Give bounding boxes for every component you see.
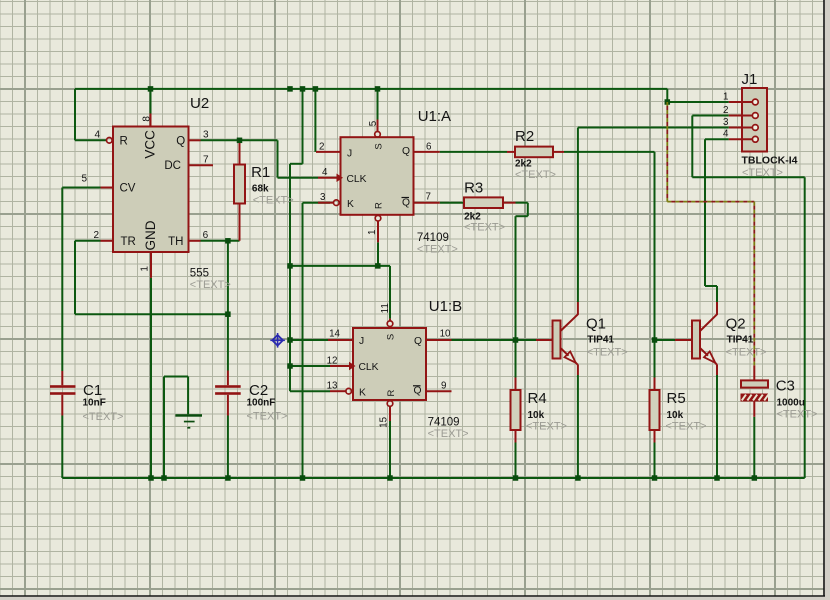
svg-text:Q: Q xyxy=(414,386,422,397)
svg-text:1000u: 1000u xyxy=(777,398,805,409)
svg-text:TBLOCK-I4: TBLOCK-I4 xyxy=(742,154,798,166)
svg-text:TH: TH xyxy=(168,236,183,248)
svg-text:R: R xyxy=(373,202,384,209)
svg-text:9: 9 xyxy=(441,380,446,391)
svg-text:Q2: Q2 xyxy=(726,316,746,333)
svg-text:J: J xyxy=(359,336,364,347)
svg-text:R5: R5 xyxy=(667,390,686,407)
svg-text:CV: CV xyxy=(120,182,136,194)
svg-text:<TEXT>: <TEXT> xyxy=(515,169,556,181)
svg-text:DC: DC xyxy=(164,160,181,172)
svg-text:<TEXT>: <TEXT> xyxy=(777,409,818,421)
svg-text:1: 1 xyxy=(367,230,378,235)
svg-text:C3: C3 xyxy=(776,378,795,395)
svg-text:TIP41: TIP41 xyxy=(727,335,754,346)
svg-text:4: 4 xyxy=(322,167,328,178)
svg-text:<TEXT>: <TEXT> xyxy=(464,222,505,234)
svg-text:K: K xyxy=(347,199,354,210)
svg-text:5: 5 xyxy=(81,174,87,185)
svg-text:Q: Q xyxy=(414,336,422,347)
svg-text:R2: R2 xyxy=(515,128,534,145)
svg-text:J: J xyxy=(347,148,352,159)
svg-text:U1:A: U1:A xyxy=(418,108,451,125)
svg-text:<TEXT>: <TEXT> xyxy=(190,279,231,291)
svg-text:2k2: 2k2 xyxy=(515,159,532,170)
svg-text:10: 10 xyxy=(440,329,451,340)
svg-text:<TEXT>: <TEXT> xyxy=(742,167,783,179)
svg-text:C2: C2 xyxy=(249,382,268,399)
svg-text:68k: 68k xyxy=(252,184,269,195)
svg-text:8: 8 xyxy=(141,116,152,122)
svg-text:S: S xyxy=(386,334,397,340)
svg-text:CLK: CLK xyxy=(347,174,367,185)
svg-text:TIP41: TIP41 xyxy=(587,335,614,346)
svg-text:3: 3 xyxy=(320,192,326,203)
svg-text:<TEXT>: <TEXT> xyxy=(587,347,628,359)
svg-text:R4: R4 xyxy=(528,390,547,407)
svg-text:R: R xyxy=(386,389,397,396)
svg-text:2: 2 xyxy=(93,230,99,241)
svg-text:7: 7 xyxy=(203,155,209,166)
svg-text:14: 14 xyxy=(329,329,340,340)
svg-text:Q: Q xyxy=(402,146,410,157)
svg-text:<TEXT>: <TEXT> xyxy=(417,243,458,255)
svg-text:Q: Q xyxy=(402,198,410,209)
svg-text:2: 2 xyxy=(319,142,324,153)
svg-text:R3: R3 xyxy=(464,180,483,197)
svg-text:<TEXT>: <TEXT> xyxy=(726,347,767,359)
svg-text:<TEXT>: <TEXT> xyxy=(526,421,567,433)
svg-text:U1:B: U1:B xyxy=(429,298,462,315)
svg-text:10k: 10k xyxy=(528,410,545,421)
svg-text:1: 1 xyxy=(139,266,150,272)
svg-text:7: 7 xyxy=(426,192,431,203)
svg-text:4: 4 xyxy=(94,130,100,141)
svg-text:74109: 74109 xyxy=(417,232,449,244)
svg-text:<TEXT>: <TEXT> xyxy=(253,194,294,206)
svg-text:<TEXT>: <TEXT> xyxy=(428,428,469,440)
svg-text:<TEXT>: <TEXT> xyxy=(83,411,124,423)
svg-text:3: 3 xyxy=(723,117,729,128)
svg-text:3: 3 xyxy=(203,130,209,141)
svg-text:6: 6 xyxy=(426,142,432,153)
svg-text:TR: TR xyxy=(121,236,136,248)
svg-text:VCC: VCC xyxy=(143,130,158,159)
svg-text:100nF: 100nF xyxy=(247,398,276,409)
svg-text:74109: 74109 xyxy=(428,416,460,428)
svg-text:K: K xyxy=(359,387,366,398)
svg-text:<TEXT>: <TEXT> xyxy=(666,421,707,433)
svg-text:Q1: Q1 xyxy=(586,316,606,333)
svg-text:R: R xyxy=(120,135,128,147)
svg-text:6: 6 xyxy=(203,230,209,241)
svg-text:5: 5 xyxy=(368,120,379,126)
svg-text:4: 4 xyxy=(723,129,729,140)
svg-text:GND: GND xyxy=(143,220,158,250)
svg-text:<TEXT>: <TEXT> xyxy=(247,411,288,423)
svg-text:U2: U2 xyxy=(190,95,209,112)
svg-text:10nF: 10nF xyxy=(83,398,106,409)
svg-text:2: 2 xyxy=(723,105,728,116)
svg-text:R1: R1 xyxy=(251,164,270,181)
svg-text:12: 12 xyxy=(327,355,338,366)
svg-text:15: 15 xyxy=(379,416,390,427)
svg-text:S: S xyxy=(373,143,384,149)
svg-text:13: 13 xyxy=(327,380,338,391)
svg-text:CLK: CLK xyxy=(359,362,379,373)
svg-text:11: 11 xyxy=(380,303,391,313)
svg-text:10k: 10k xyxy=(667,410,684,421)
svg-text:555: 555 xyxy=(190,267,209,279)
svg-text:C1: C1 xyxy=(83,382,102,399)
svg-text:1: 1 xyxy=(723,91,728,102)
svg-text:Q: Q xyxy=(176,135,185,147)
svg-text:J1: J1 xyxy=(742,71,758,88)
